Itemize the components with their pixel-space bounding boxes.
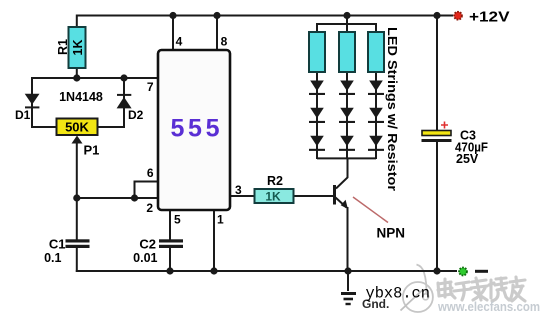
svg-text:C1: C1 (49, 237, 66, 252)
svg-text:555: 555 (171, 115, 220, 143)
svg-text:1K: 1K (265, 190, 281, 204)
svg-text:8: 8 (221, 35, 228, 49)
svg-text:5: 5 (174, 213, 181, 227)
svg-text:0.01: 0.01 (133, 251, 157, 265)
svg-text:4: 4 (176, 35, 183, 49)
svg-text:7: 7 (147, 80, 154, 94)
svg-text:R2: R2 (267, 174, 283, 188)
svg-text:D2: D2 (128, 108, 144, 122)
svg-text:1K: 1K (71, 40, 85, 56)
svg-text:R1: R1 (56, 39, 70, 55)
svg-text:3: 3 (235, 183, 242, 197)
svg-text:NPN: NPN (377, 226, 406, 241)
svg-text:D1: D1 (15, 108, 31, 122)
svg-text:P1: P1 (84, 143, 100, 158)
svg-text:1N4148: 1N4148 (59, 90, 103, 104)
svg-text:1: 1 (217, 213, 224, 227)
svg-text:+12V: +12V (469, 8, 510, 25)
svg-text:LED Strings w/ Resistor: LED Strings w/ Resistor (385, 27, 399, 191)
svg-text:50K: 50K (65, 120, 89, 135)
svg-text:25V: 25V (456, 152, 479, 166)
svg-text:2: 2 (146, 201, 153, 215)
svg-text:6: 6 (147, 166, 154, 180)
svg-text:0.1: 0.1 (44, 251, 61, 265)
svg-text:www.elecfans.com: www.elecfans.com (437, 300, 540, 314)
svg-text:ybx8.cn: ybx8.cn (366, 285, 431, 303)
svg-text:C2: C2 (139, 237, 156, 252)
